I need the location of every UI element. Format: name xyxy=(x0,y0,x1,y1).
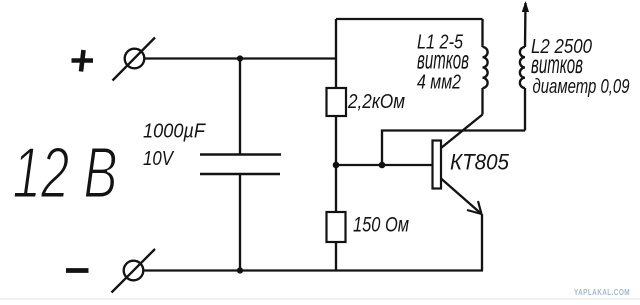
node base feedback junction xyxy=(379,162,386,169)
svg-text:диаметр 0,09: диаметр 0,09 xyxy=(533,76,630,98)
node junction dots xyxy=(237,1,529,274)
emitter arrowhead xyxy=(467,201,482,214)
terminal - (circle with slash) xyxy=(112,249,156,293)
wire between R1 and base node xyxy=(335,116,337,212)
capacitor C1 plates xyxy=(200,155,281,175)
svg-text:1000µF: 1000µF xyxy=(143,121,207,143)
node cap bottom junction xyxy=(237,267,243,273)
transistor Q1 base bar xyxy=(433,141,442,189)
L2 arrowhead xyxy=(522,1,529,12)
wire base horizontal xyxy=(336,164,433,166)
wire capacitor bottom vertical xyxy=(239,174,241,271)
svg-text:150 Ом: 150 Ом xyxy=(353,214,409,237)
inductor L2 xyxy=(520,3,526,131)
svg-text:12 В: 12 В xyxy=(13,133,118,214)
svg-text:КТ805: КТ805 xyxy=(450,150,510,175)
node base left junction xyxy=(333,162,340,169)
node cap top junction xyxy=(237,55,243,61)
minus label xyxy=(66,268,89,273)
inductor L1 xyxy=(483,19,488,115)
svg-text:10V: 10V xyxy=(143,147,175,170)
wire bottom horizontal xyxy=(143,269,483,271)
resistor R1 body xyxy=(327,88,347,116)
wire top-left horizontal xyxy=(144,57,336,59)
wire left branch vertical upper xyxy=(335,19,337,88)
wire feedback from base node up and right xyxy=(382,131,525,166)
wire collector diagonal xyxy=(441,115,483,149)
wire below R2 xyxy=(335,242,337,271)
terminal + (circle with slash) xyxy=(113,38,156,81)
wire emitter diagonal xyxy=(441,179,482,215)
svg-text:2,2кОм: 2,2кОм xyxy=(347,90,405,113)
svg-text:витков: витков xyxy=(531,49,583,79)
wire top horizontal xyxy=(336,18,483,20)
plus label xyxy=(72,50,94,72)
svg-text:витков: витков xyxy=(417,45,469,75)
wire emitter vertical xyxy=(481,214,483,271)
scan artifact line xyxy=(0,298,640,300)
svg-text:YAPLAKAL.COM: YAPLAKAL.COM xyxy=(574,288,630,297)
svg-text:4 мм2: 4 мм2 xyxy=(417,72,461,94)
resistor R2 body xyxy=(327,212,346,242)
wire capacitor top vertical xyxy=(239,59,241,155)
